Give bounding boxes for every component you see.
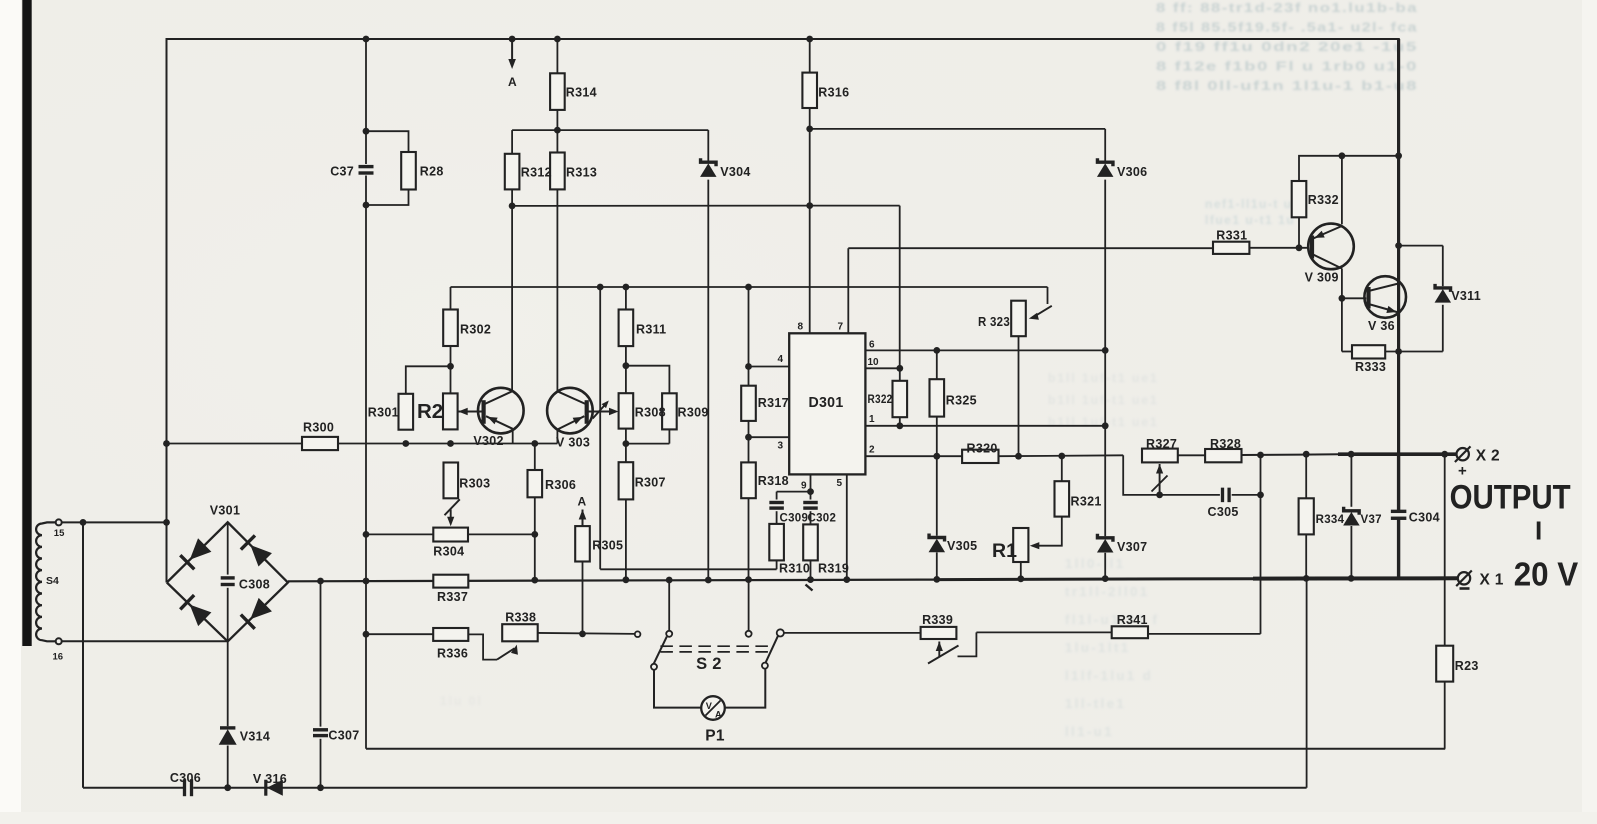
svg-text:R339: R339 — [922, 613, 953, 627]
svg-text:R307: R307 — [635, 476, 666, 490]
svg-text:R334: R334 — [1316, 514, 1345, 526]
svg-text:R302: R302 — [460, 323, 491, 337]
svg-text:R28: R28 — [420, 165, 444, 179]
svg-text:7: 7 — [837, 322, 843, 333]
svg-text:R309: R309 — [678, 406, 709, 420]
svg-text:1ll-tle1: 1ll-tle1 — [1065, 696, 1126, 711]
svg-text:R337: R337 — [437, 590, 468, 604]
svg-text:R318: R318 — [758, 474, 789, 488]
svg-text:R301: R301 — [368, 406, 399, 420]
svg-text:R311: R311 — [636, 323, 666, 337]
svg-text:R336: R336 — [437, 647, 468, 661]
svg-text:C305: C305 — [1208, 505, 1239, 519]
svg-text:9: 9 — [801, 481, 807, 492]
svg-text:C304: C304 — [1409, 511, 1440, 525]
svg-text:C306: C306 — [170, 771, 201, 785]
svg-text:R306: R306 — [545, 478, 576, 492]
svg-text:R304: R304 — [433, 545, 464, 559]
svg-text:+: + — [1458, 463, 1467, 480]
svg-text:6: 6 — [869, 340, 875, 351]
svg-text:R312: R312 — [521, 166, 552, 180]
svg-text:R328: R328 — [1210, 437, 1241, 451]
svg-text:R327: R327 — [1146, 437, 1177, 451]
svg-text:R321: R321 — [1071, 495, 1102, 509]
svg-text:R23: R23 — [1455, 659, 1479, 673]
svg-text:ll1-u1: ll1-u1 — [1065, 724, 1114, 739]
svg-text:V 309: V 309 — [1305, 271, 1339, 285]
svg-text:R332: R332 — [1308, 193, 1339, 207]
svg-text:R333: R333 — [1355, 360, 1386, 374]
svg-text:8 f8l 0ll-uf1n 1l1u-1 b1-u8: 8 f8l 0ll-uf1n 1l1u-1 b1-u8 — [1156, 78, 1418, 93]
svg-text:R 323: R 323 — [978, 315, 1010, 329]
svg-text:V 316: V 316 — [253, 772, 287, 786]
svg-text:1lu 0l: 1lu 0l — [440, 694, 483, 708]
svg-text:20 V: 20 V — [1514, 556, 1579, 593]
svg-text:V306: V306 — [1117, 165, 1147, 179]
svg-text:1ll0-ll1: 1ll0-ll1 — [1065, 556, 1125, 571]
svg-text:R316: R316 — [818, 86, 849, 100]
svg-text:V304: V304 — [720, 165, 750, 179]
svg-text:16: 16 — [53, 652, 64, 663]
svg-text:R317: R317 — [758, 396, 789, 410]
svg-text:R314: R314 — [566, 86, 597, 100]
svg-text:b1ll 1uf-t1 ue1: b1ll 1uf-t1 ue1 — [1048, 371, 1159, 385]
svg-text:V302: V302 — [473, 434, 503, 448]
svg-text:V 303: V 303 — [556, 436, 590, 450]
svg-text:2: 2 — [869, 445, 875, 456]
svg-text:V37: V37 — [1361, 514, 1382, 526]
svg-text:S4: S4 — [46, 575, 59, 587]
svg-text:V: V — [706, 701, 713, 711]
svg-text:S 2: S 2 — [696, 655, 722, 673]
svg-text:R338: R338 — [505, 611, 536, 625]
svg-text:R325: R325 — [946, 394, 977, 408]
svg-text:8 f12e f1b0 Fl u 1rb0 u1-0: 8 f12e f1b0 Fl u 1rb0 u1-0 — [1156, 59, 1418, 74]
svg-text:10: 10 — [868, 357, 880, 368]
svg-text:D301: D301 — [809, 395, 844, 411]
svg-text:l1lf-1lu1 d: l1lf-1lu1 d — [1065, 668, 1153, 683]
svg-text:I: I — [1535, 516, 1542, 546]
svg-text:V301: V301 — [210, 504, 240, 518]
svg-text:b1ll 1uf-t1 ue1: b1ll 1uf-t1 ue1 — [1048, 393, 1159, 407]
svg-text:X 2: X 2 — [1476, 448, 1500, 465]
svg-text:5: 5 — [836, 478, 842, 489]
svg-text:R313: R313 — [566, 166, 597, 180]
svg-text:R1: R1 — [992, 540, 1017, 562]
svg-text:R2: R2 — [417, 400, 443, 423]
svg-text:A: A — [508, 75, 517, 89]
svg-text:V314: V314 — [240, 730, 270, 744]
svg-text:4: 4 — [777, 354, 783, 365]
svg-text:V 36: V 36 — [1368, 319, 1395, 333]
svg-text:R331: R331 — [1216, 229, 1247, 243]
svg-text:OUTPUT: OUTPUT — [1450, 479, 1571, 517]
svg-text:R320: R320 — [967, 442, 998, 456]
svg-text:0 f19 ff1u 0dn2 20e1 -1u5: 0 f19 ff1u 0dn2 20e1 -1u5 — [1156, 39, 1418, 54]
svg-text:C37: C37 — [330, 165, 354, 179]
svg-text:C307: C307 — [328, 729, 359, 743]
svg-text:R305: R305 — [592, 539, 623, 553]
svg-text:C309: C309 — [780, 513, 809, 525]
svg-text:R322: R322 — [868, 394, 893, 406]
svg-text:A: A — [715, 710, 722, 720]
svg-text:R310: R310 — [779, 562, 810, 576]
svg-text:8: 8 — [797, 322, 803, 333]
svg-text:V307: V307 — [1117, 540, 1147, 554]
svg-text:lfue1 u-t1 1u: lfue1 u-t1 1u — [1205, 213, 1295, 227]
svg-text:R300: R300 — [303, 421, 334, 435]
svg-text:V311: V311 — [1451, 289, 1481, 303]
svg-text:1lu-1lt1: 1lu-1lt1 — [1065, 640, 1131, 655]
svg-text:R303: R303 — [459, 477, 490, 491]
svg-text:C308: C308 — [239, 578, 270, 592]
svg-text:C302: C302 — [808, 513, 837, 525]
svg-text:R319: R319 — [818, 562, 849, 576]
svg-text:15: 15 — [54, 528, 65, 539]
svg-text:P1: P1 — [705, 728, 725, 745]
svg-text:R341: R341 — [1117, 613, 1148, 627]
svg-text:nef1-ll1u-t u1: nef1-ll1u-t u1 — [1205, 197, 1301, 211]
svg-text:1: 1 — [869, 414, 875, 425]
svg-text:8 ff: 88-tr1d-23f no1.lu1b-ba: 8 ff: 88-tr1d-23f no1.lu1b-ba — [1156, 0, 1418, 15]
svg-text:tr1ll-2ll01: tr1ll-2ll01 — [1065, 584, 1150, 599]
svg-text:3: 3 — [777, 441, 783, 452]
svg-text:V305: V305 — [947, 539, 977, 553]
svg-text:X 1: X 1 — [1480, 572, 1504, 589]
svg-text:A: A — [578, 495, 587, 509]
svg-text:8 f5l 85.5f19.5f- .5a1- u2l- f: 8 f5l 85.5f19.5f- .5a1- u2l- fca — [1156, 20, 1418, 35]
svg-text:R308: R308 — [635, 406, 666, 420]
